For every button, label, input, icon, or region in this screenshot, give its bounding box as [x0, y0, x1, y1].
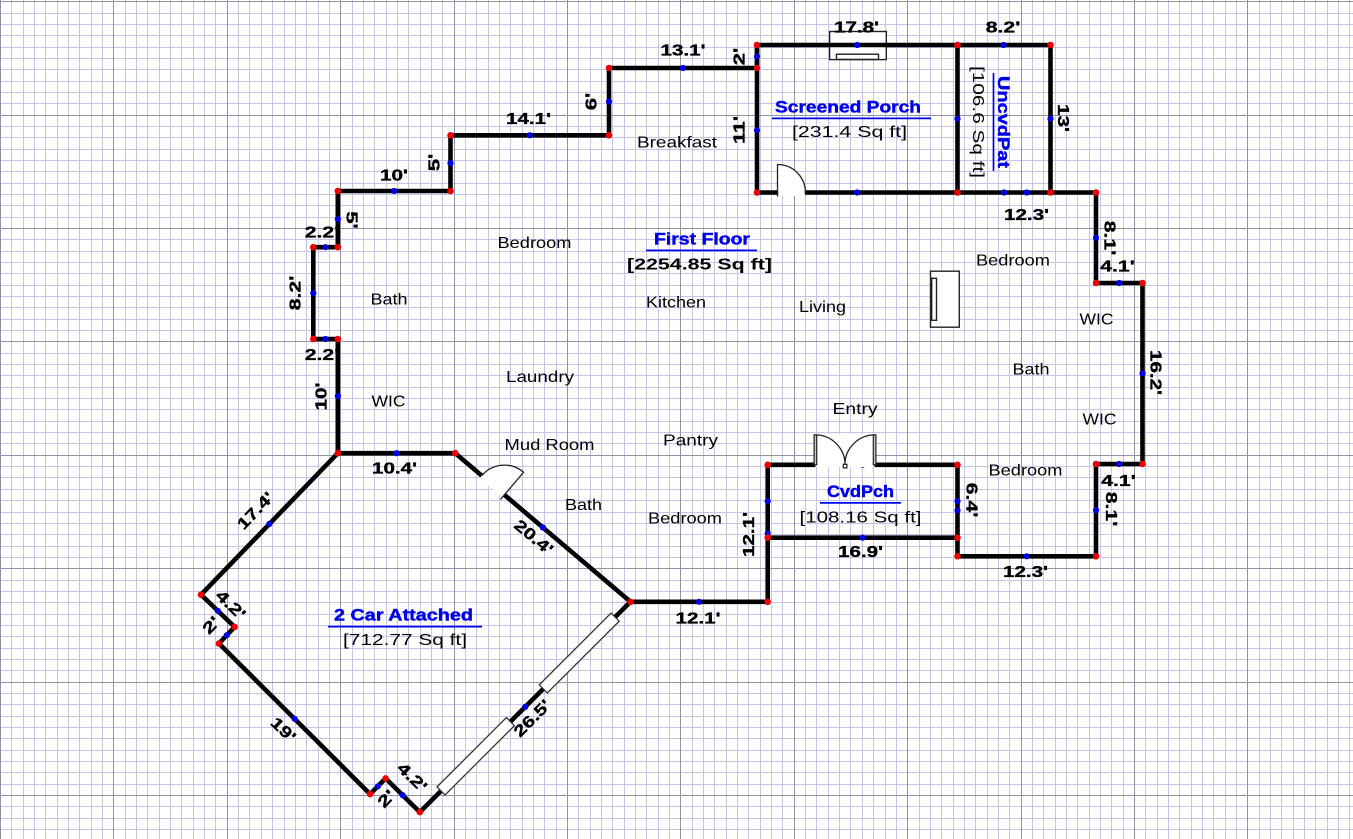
node corner P13: [1093, 461, 1100, 468]
svg-text:Screened Porch: Screened Porch: [775, 98, 921, 117]
node corner P2: [754, 65, 761, 72]
wall 12.3ft bottom right: [958, 554, 1097, 559]
svg-text:Bedroom: Bedroom: [976, 253, 1050, 270]
wall 16.2ft right wall: [1140, 283, 1145, 464]
node corner P10: [1093, 280, 1100, 287]
wall porch/patio divider: [955, 45, 960, 193]
svg-text:4.1': 4.1': [1101, 473, 1136, 490]
svg-text:2.2': 2.2': [305, 225, 340, 242]
area label First Floor: [627, 230, 772, 274]
door swing Screened Porch: [778, 165, 806, 197]
node corner P36: [382, 775, 389, 782]
svg-text:11': 11': [732, 116, 749, 144]
midpoint 17.4ft: [266, 521, 272, 527]
svg-text:Bedroom: Bedroom: [498, 235, 572, 252]
node corner P12: [1139, 461, 1146, 468]
fireplace symbol in Living room: [931, 271, 960, 327]
midpoint 16.2ft: [1139, 370, 1145, 376]
svg-text:WIC: WIC: [1080, 312, 1114, 329]
svg-text:Bath: Bath: [371, 292, 408, 309]
node corner P3: [754, 42, 761, 49]
svg-text:12.1': 12.1': [741, 512, 758, 557]
garage door panel 1: [437, 718, 514, 795]
svg-text:Bedroom: Bedroom: [989, 463, 1063, 480]
midpoint 4.2ft: [215, 608, 221, 614]
svg-text:First Floor: First Floor: [654, 230, 750, 249]
svg-text:[712.77 Sq ft]: [712.77 Sq ft]: [343, 632, 467, 649]
wall 12.1ft Entry left wall: [765, 465, 770, 602]
midpoint patio bottom: [1001, 189, 1007, 195]
svg-text:2 Car Attached: 2 Car Attached: [334, 606, 473, 625]
svg-text:13.1': 13.1': [661, 43, 706, 60]
midpoint 8.2ft left: [310, 290, 316, 296]
node corner P18: [764, 599, 771, 606]
node corner P34: [216, 640, 223, 647]
wall garage 2ft jog lower: [370, 778, 386, 794]
midpoint divider: [954, 116, 960, 122]
wall 8.1ft right upper: [1094, 193, 1099, 284]
svg-text:2.2': 2.2': [305, 347, 340, 364]
svg-text:Entry: Entry: [833, 401, 878, 418]
midpoint 5ft: [447, 160, 453, 166]
svg-text:Living: Living: [799, 299, 846, 316]
wall breakfast left 6ft: [607, 68, 612, 135]
wall CvdPch top left of doors: [768, 462, 816, 467]
area label UncvdPat (rotated): [969, 66, 1013, 178]
svg-text:[108.16 Sq ft]: [108.16 Sq ft]: [800, 510, 922, 527]
midpoint 11ft: [754, 127, 760, 133]
svg-text:WIC: WIC: [1083, 412, 1117, 429]
area label Screened Porch: [772, 98, 931, 142]
node corner P14: [1093, 553, 1100, 560]
node corner P22: [606, 132, 613, 139]
svg-text:8.1': 8.1': [1101, 221, 1118, 256]
wall garage 4.2ft jog: [201, 595, 235, 627]
node corner P1: [606, 65, 613, 72]
svg-text:8.2': 8.2': [986, 20, 1021, 37]
svg-text:8.1': 8.1': [1102, 492, 1119, 527]
svg-text:5': 5': [427, 154, 444, 172]
wall bedroom left wall 8ft: [955, 465, 960, 557]
node corner P35: [367, 791, 374, 798]
wall 10ft wall: [338, 189, 451, 194]
midpoint 8.1ft lower: [1093, 507, 1099, 513]
node corner P32: [198, 591, 205, 598]
svg-text:6': 6': [584, 93, 601, 111]
node corner P20: [954, 534, 961, 541]
midpoint 2.2ft lower: [322, 336, 328, 342]
midpoint 12.1ft left: [765, 530, 771, 536]
wall garage 19ft diagonal: [219, 644, 370, 795]
svg-text:8.2': 8.2': [288, 276, 305, 311]
wall garage 2ft jog: [219, 627, 235, 644]
svg-text:Mud Room: Mud Room: [505, 437, 595, 454]
wall porch left 11ft: [755, 45, 760, 193]
svg-text:Bath: Bath: [1013, 362, 1050, 379]
wall porch bottom + 12.3ft top right of door: [805, 190, 1096, 195]
midpoint 6ft: [606, 99, 612, 105]
node corner P4: [954, 42, 961, 49]
node corner P31: [452, 450, 459, 457]
node corner P8: [754, 189, 761, 196]
midpoint porch bottom: [854, 189, 860, 195]
node corner P16: [954, 462, 961, 469]
node corner P33: [231, 624, 238, 631]
midpoint 4.1ft lower: [1116, 461, 1122, 467]
svg-text:2': 2': [732, 48, 749, 66]
wall UncvdPat right 13ft: [1048, 45, 1053, 193]
wall porch bottom left of door: [757, 190, 779, 195]
midpoint 13ft: [1047, 116, 1053, 122]
wall 10ft WIC wall: [335, 339, 340, 453]
wall garage 17.4ft diagonal: [201, 453, 338, 595]
wall 14.1ft wall: [451, 133, 610, 138]
midpoint 5ft lower: [335, 216, 341, 222]
wall 5ft wall lower: [335, 191, 340, 247]
wall 4.1ft jog lower: [1096, 462, 1143, 467]
midpoint 10ft: [391, 188, 397, 194]
wall garage 4.2ft jog lower: [386, 778, 420, 812]
wall 2ft porch step: [755, 45, 760, 68]
svg-text:16.9': 16.9': [838, 544, 883, 561]
svg-text:Bath: Bath: [565, 497, 602, 514]
node corner P24: [447, 188, 454, 195]
node corner P23: [447, 132, 454, 139]
wall garage 26.5ft diagonal: [420, 602, 631, 812]
svg-text:16.2': 16.2': [1147, 350, 1164, 395]
node corner P37: [417, 809, 424, 816]
wall 2.2ft jog lower: [313, 337, 338, 342]
node corner P6: [1047, 189, 1054, 196]
node corner P5: [1047, 42, 1054, 49]
svg-text:13': 13': [1054, 104, 1071, 132]
midpoint 14.1ft: [527, 132, 533, 138]
node corner P11: [1139, 280, 1146, 287]
door swing Mud Room: [480, 473, 507, 497]
wall CvdPch top right of doors: [875, 462, 958, 467]
midpoint 16.9ft: [860, 535, 866, 541]
wall 8.1ft right lower: [1094, 464, 1099, 556]
svg-text:17.8': 17.8': [834, 20, 879, 37]
area label 2 Car Attached: [328, 606, 482, 650]
midpoint CvdPch top: [860, 462, 866, 468]
svg-text:12.1': 12.1': [676, 611, 721, 628]
midpoint 6.4ft: [954, 498, 960, 504]
svg-text:Kitchen: Kitchen: [646, 295, 706, 312]
svg-text:[106.6 Sq ft]: [106.6 Sq ft]: [969, 66, 986, 178]
svg-text:[231.4 Sq ft]: [231.4 Sq ft]: [792, 124, 907, 141]
wall 13.1ft top (Breakfast): [609, 66, 757, 71]
midpoint 2ft garage: [224, 632, 230, 638]
svg-text:10': 10': [314, 383, 331, 411]
node corner P29: [335, 336, 342, 343]
svg-text:10': 10': [380, 168, 408, 185]
fireplace symbol on 17.8ft porch wall: [830, 32, 887, 60]
wall garage/mudroom 20.4ft diagonal: [455, 453, 630, 602]
midpoint 8.1ft upper: [1093, 235, 1099, 241]
midpoint 2.2ft upper: [322, 244, 328, 250]
midpoint 12.1ft bottom: [696, 599, 702, 605]
svg-text:Laundry: Laundry: [506, 369, 574, 386]
svg-text:5': 5': [343, 211, 360, 229]
node corner P15: [954, 553, 961, 560]
node corner P21: [764, 534, 771, 541]
wall porch+patio top (17.8ft + 8.2ft): [757, 43, 1051, 48]
node corner P28: [310, 336, 317, 343]
midpoint CvdPch left: [765, 498, 771, 504]
midpoint bedroom left: [954, 507, 960, 513]
svg-text:WIC: WIC: [372, 394, 406, 411]
midpoint 10ft WIC: [335, 393, 341, 399]
midpoint 2ft: [754, 53, 760, 59]
garage door panel 2: [539, 613, 619, 693]
node corner P26: [335, 244, 342, 251]
midpoint 2ft lower: [375, 783, 381, 789]
midpoint 12.3ft bottom: [1024, 553, 1030, 559]
node corner P17: [764, 462, 771, 469]
svg-text:10.4': 10.4': [372, 461, 417, 478]
wall 10.4ft mudroom wall: [338, 451, 456, 456]
midpoint 20.4ft: [540, 524, 546, 530]
midpoint 4.1ft upper: [1116, 280, 1122, 286]
node corner P7: [954, 189, 961, 196]
node corner P25: [335, 188, 342, 195]
svg-text:[2254.85 Sq ft]: [2254.85 Sq ft]: [627, 257, 772, 274]
midpoint 10.4ft: [393, 450, 399, 456]
svg-text:12.3': 12.3': [1003, 564, 1048, 581]
node corner P27: [310, 244, 317, 251]
svg-text:6.4': 6.4': [963, 483, 980, 518]
area label CvdPch: [800, 482, 922, 527]
svg-text:4.1': 4.1': [1100, 259, 1135, 276]
node corner P19: [627, 599, 634, 606]
svg-text:12.3': 12.3': [1004, 207, 1049, 224]
wall 2.2ft jog upper: [313, 245, 338, 250]
midpoint 12.3ft top: [1024, 189, 1030, 195]
midpoint 13.1ft: [680, 65, 686, 71]
double door Entry: [815, 434, 874, 467]
midpoint 19ft: [292, 716, 298, 722]
node corner P9: [1093, 189, 1100, 196]
midpoint 26.5ft: [522, 704, 528, 710]
wall 12.1ft bottom bedroom wall: [631, 599, 768, 604]
wall 5ft wall: [448, 135, 453, 191]
node corner P30: [335, 450, 342, 457]
midpoint 8.2ft: [1000, 42, 1006, 48]
midpoint 4.2ft lower: [400, 792, 406, 798]
svg-text:CvdPch: CvdPch: [827, 482, 894, 501]
svg-text:Breakfast: Breakfast: [637, 135, 718, 152]
wall 4.1ft jog: [1096, 281, 1143, 286]
svg-text:Bedroom: Bedroom: [648, 511, 722, 528]
svg-text:14.1': 14.1': [506, 111, 551, 128]
svg-text:UncvdPat: UncvdPat: [994, 76, 1013, 168]
wall 8.2ft bath wall: [311, 247, 316, 339]
wall 16.9ft CvdPch bottom: [768, 535, 958, 540]
midpoint 17.8ft: [854, 42, 860, 48]
svg-text:Pantry: Pantry: [663, 433, 718, 450]
